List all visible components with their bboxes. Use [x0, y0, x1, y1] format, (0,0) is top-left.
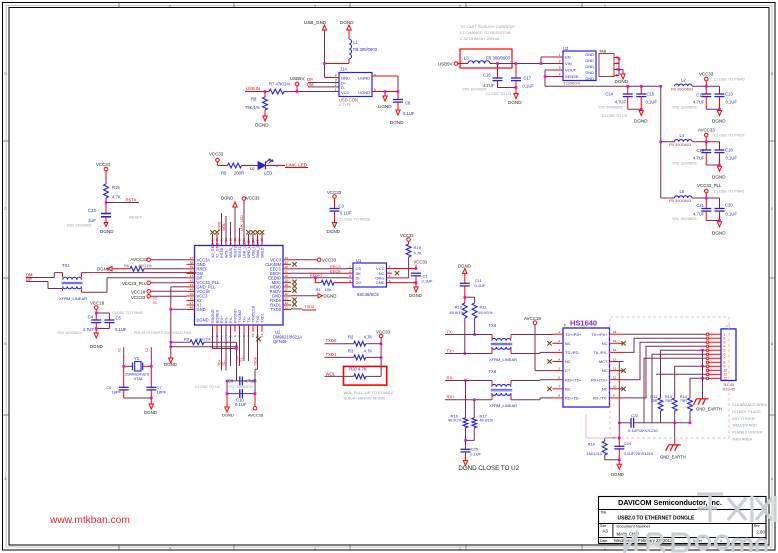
svg-text:XFRM_LINEAR: XFRM_LINEAR [489, 403, 517, 408]
svg-text:J1A: J1A [340, 67, 347, 72]
svg-text:0.1UF: 0.1UF [235, 402, 247, 407]
svg-text:WOL PULL-UP TO ENABLE: WOL PULL-UP TO ENABLE [344, 390, 395, 395]
svg-text:FX-: FX- [229, 316, 233, 323]
svg-text:RX-: RX- [225, 316, 229, 323]
svg-text:DGND: DGND [615, 79, 629, 84]
svg-text:L1: L1 [353, 40, 358, 45]
svg-text:TD-/PD-: TD-/PD- [565, 350, 580, 355]
svg-text:L2: L2 [681, 78, 686, 83]
svg-text:TAB: TAB [599, 49, 607, 53]
svg-text:SENSE: SENSE [565, 74, 579, 79]
svg-text:GND: GND [585, 58, 594, 63]
svg-text:4: 4 [169, 546, 171, 550]
svg-text:1M/1210: 1M/1210 [586, 451, 602, 456]
svg-text:QFN49: QFN49 [273, 339, 287, 344]
svg-text:TD+/PD+: TD+/PD+ [565, 332, 582, 337]
svg-text:Title: Title [601, 511, 607, 515]
svg-text:93C46/SC8: 93C46/SC8 [357, 292, 379, 297]
svg-text:DGND: DGND [197, 318, 209, 323]
svg-text:13: 13 [285, 306, 289, 310]
svg-text:4: 4 [335, 74, 337, 78]
svg-text:BGRES: BGRES [216, 309, 220, 323]
svg-text:VCC33: VCC33 [131, 295, 146, 300]
svg-text:45: 45 [190, 292, 194, 296]
svg-text:RSTB: RSTB [220, 247, 224, 258]
svg-text:TX-: TX- [247, 316, 251, 323]
svg-text:CLOSE TO U3: CLOSE TO U3 [602, 114, 627, 118]
svg-text:RSTB: RSTB [218, 221, 222, 231]
svg-text:TX+: TX+ [447, 348, 455, 353]
svg-text:FB 300/0603: FB 300/0603 [671, 86, 693, 91]
svg-text:VCC33: VCC33 [209, 152, 224, 157]
svg-text:XFRM_LINEAR: XFRM_LINEAR [489, 357, 517, 362]
svg-text:TD+: TD+ [218, 359, 222, 366]
svg-text:75R: 75R [665, 398, 672, 403]
svg-text:48: 48 [190, 306, 194, 310]
svg-text:39: 39 [190, 265, 194, 269]
svg-text:42: 42 [190, 279, 194, 283]
svg-text:A3: A3 [603, 529, 609, 534]
svg-text:46: 46 [190, 297, 194, 301]
svg-text:TX-: TX- [240, 357, 244, 362]
svg-text:RX+: RX+ [220, 315, 224, 323]
svg-text:2.32 OHM/IA+-200mA: 2.32 OHM/IA+-200mA [460, 36, 500, 41]
svg-text:RX+: RX+ [447, 394, 456, 399]
svg-text:NC: NC [565, 386, 571, 391]
svg-text:18PF: 18PF [111, 390, 121, 395]
svg-text:Y5V 16V/0603: Y5V 16V/0603 [672, 106, 697, 110]
svg-text:RX+/TX+: RX+/TX+ [591, 377, 608, 382]
svg-text:U3: U3 [563, 46, 569, 51]
svg-text:R5: R5 [221, 171, 227, 176]
svg-text:NC: NC [602, 341, 608, 346]
svg-text:TEST2: TEST2 [234, 246, 238, 258]
svg-text:RSGND: RSGND [211, 309, 215, 323]
svg-text:DGND: DGND [611, 472, 624, 477]
svg-text:200R: 200R [234, 171, 244, 176]
svg-text:49.9/1%: 49.9/1% [478, 310, 493, 315]
svg-text:0.1UF/2KV/1210: 0.1UF/2KV/1210 [628, 428, 658, 433]
svg-text:USB_GND: USB_GND [304, 20, 327, 25]
svg-text:VCC33_PLL: VCC33_PLL [697, 183, 722, 188]
svg-text:44: 44 [190, 288, 194, 292]
svg-text:0.1UF: 0.1UF [470, 451, 481, 456]
svg-text:0.1UF: 0.1UF [340, 211, 352, 216]
svg-text:DGND: DGND [409, 293, 422, 298]
svg-text:6.8K/1%: 6.8K/1% [196, 336, 211, 341]
svg-text:GND: GND [197, 307, 206, 312]
svg-text:Wednesday, February 22, 2012: Wednesday, February 22, 2012 [614, 538, 673, 543]
svg-text:75R: 75R [680, 398, 687, 403]
svg-text:JP1: JP1 [725, 325, 731, 329]
svg-text:TXVDD18: TXVDD18 [252, 306, 256, 323]
svg-text:NC: NC [565, 341, 571, 346]
svg-text:DGND: DGND [90, 344, 103, 349]
svg-text:TX-/PX-: TX-/PX- [593, 350, 608, 355]
svg-text:DGND: DGND [712, 119, 726, 124]
svg-text:FB 300/0603: FB 300/0603 [353, 47, 378, 52]
svg-text:14: 14 [285, 301, 289, 305]
svg-text:DGND CLOSE TO U2: DGND CLOSE TO U2 [458, 465, 519, 472]
svg-text:THIS AREA: THIS AREA [732, 437, 753, 442]
svg-text:NC: NC [602, 368, 608, 373]
svg-text:TX-: TX- [447, 329, 454, 334]
svg-text:VCC18: VCC18 [131, 289, 146, 294]
svg-text:4.7K: 4.7K [364, 348, 373, 353]
svg-text:C23: C23 [88, 208, 96, 213]
svg-text:38: 38 [190, 261, 194, 265]
svg-text:15: 15 [285, 297, 289, 301]
svg-text:USB IN: USB IN [246, 86, 260, 91]
svg-text:DO NOT PLACE: DO NOT PLACE [732, 409, 761, 414]
svg-text:C15: C15 [647, 92, 655, 97]
svg-text:USB5V: USB5V [290, 76, 304, 81]
svg-text:TX8: TX8 [489, 369, 497, 374]
svg-text:Y1: Y1 [134, 356, 140, 361]
svg-text:R1: R1 [316, 287, 322, 292]
svg-text:TXD1: TXD1 [326, 352, 337, 357]
svg-text:Y5V 16V/0603: Y5V 16V/0603 [672, 217, 697, 221]
svg-text:TX+/PX+: TX+/PX+ [591, 332, 608, 337]
svg-text:GND: GND [585, 52, 594, 57]
svg-text:AVCC18: AVCC18 [248, 413, 264, 418]
svg-text:Size: Size [600, 524, 606, 528]
svg-text:C13: C13 [725, 92, 733, 97]
svg-text:EECK: EECK [330, 268, 341, 273]
svg-text:SUB-IF NATIVE MODE: SUB-IF NATIVE MODE [344, 396, 386, 401]
svg-text:TXD0: TXD0 [271, 307, 282, 312]
svg-text:PLANES UNDER: PLANES UNDER [732, 430, 762, 435]
svg-text:TI: TI [564, 324, 567, 328]
svg-text:TXD1: TXD1 [261, 313, 265, 323]
svg-text:CLOSE TO PIN37: CLOSE TO PIN37 [714, 133, 745, 137]
svg-text:DGND: DGND [390, 120, 404, 125]
svg-text:U1: U1 [356, 258, 362, 263]
svg-text:CLOSE TO PIN43: CLOSE TO PIN43 [714, 78, 745, 82]
svg-text:RX-: RX- [447, 375, 455, 380]
svg-text:LED: LED [264, 171, 272, 176]
svg-text:NC: NC [602, 386, 608, 391]
svg-text:X2: X2 [145, 348, 149, 352]
svg-text:VIN: VIN [565, 61, 572, 66]
svg-text:GND: GND [585, 64, 594, 69]
svg-text:WOL: WOL [222, 223, 226, 231]
svg-text:TX1: TX1 [62, 263, 70, 268]
svg-text:Rev: Rev [754, 524, 760, 528]
svg-text:18PF: 18PF [157, 390, 167, 395]
svg-text:TX0: TX0 [489, 323, 497, 328]
svg-text:GND: GND [585, 76, 594, 81]
svg-text:TX+: TX+ [236, 356, 240, 362]
svg-text:XTAL: XTAL [134, 376, 144, 381]
svg-text:SMLD: SMLD [261, 247, 265, 258]
svg-text:12: 12 [724, 377, 728, 381]
svg-text:VCC33: VCC33 [246, 196, 260, 201]
svg-text:RST#: RST# [126, 197, 137, 202]
svg-text:UGND: UGND [358, 90, 370, 95]
svg-text:12: 12 [613, 366, 617, 370]
svg-text:R20 4.7K: R20 4.7K [349, 367, 367, 372]
svg-text:20: 20 [285, 274, 289, 278]
svg-text:Date:: Date: [600, 539, 608, 543]
svg-text:CLOSE TO PIN28: CLOSE TO PIN28 [340, 218, 371, 222]
svg-text:AVCC33: AVCC33 [131, 257, 148, 262]
svg-text:Document Number: Document Number [617, 524, 651, 529]
svg-text:4.7UF: 4.7UF [693, 156, 705, 161]
svg-text:17: 17 [285, 288, 289, 292]
svg-text:12: 12 [260, 333, 264, 337]
svg-text:4: 4 [169, 4, 171, 8]
svg-text:23: 23 [285, 261, 289, 265]
svg-text:0.1UF: 0.1UF [475, 283, 486, 288]
svg-text:L3: L3 [464, 55, 469, 60]
svg-text:Y5V 16V/0603: Y5V 16V/0603 [672, 162, 697, 166]
svg-text:0.1UF: 0.1UF [726, 100, 738, 105]
svg-text:VCC33: VCC33 [376, 329, 391, 334]
svg-text:DGND: DGND [324, 294, 337, 299]
svg-text:R8: R8 [251, 97, 257, 102]
svg-text:R2: R2 [348, 335, 354, 340]
svg-text:T23960/4: T23960/4 [563, 81, 581, 86]
svg-text:C21: C21 [696, 203, 704, 208]
svg-text:C14: C14 [605, 92, 613, 97]
svg-text:DGND: DGND [340, 20, 354, 25]
svg-text:R3: R3 [348, 348, 354, 353]
svg-text:49.9/1%: 49.9/1% [480, 419, 494, 423]
svg-text:TO LIMIT IN-RUSH CURRENT: TO LIMIT IN-RUSH CURRENT [460, 24, 516, 29]
svg-text:MCT: MCT [599, 359, 608, 364]
svg-text:TRACES AND: TRACES AND [732, 423, 757, 428]
svg-text:GND_EARTH: GND_EARTH [696, 406, 722, 411]
svg-text:D2: D2 [250, 167, 255, 171]
svg-text:R9: R9 [184, 336, 189, 341]
svg-text:Y5V 50V/0805: Y5V 50V/0805 [598, 106, 623, 110]
svg-text:0.1UF: 0.1UF [646, 100, 658, 105]
svg-text:USB2.0 TO ETHERNET DONGLE: USB2.0 TO ETHERNET DONGLE [618, 516, 696, 522]
svg-text:CLOSE TO U3: CLOSE TO U3 [486, 92, 511, 96]
svg-text:GND_EARTH: GND_EARTH [660, 455, 686, 460]
svg-text:75R: 75R [650, 398, 657, 403]
svg-text:C5: C5 [116, 316, 122, 321]
svg-text:R6: R6 [124, 263, 129, 268]
svg-text:10: 10 [251, 333, 255, 337]
svg-text:AVCC18: AVCC18 [524, 316, 541, 321]
svg-text:LNK_LED: LNK_LED [240, 215, 244, 231]
svg-text:4.7K: 4.7K [364, 335, 373, 340]
svg-text:VCC18: VCC18 [90, 301, 105, 306]
svg-text:DM: DM [307, 82, 314, 87]
svg-text:16: 16 [613, 330, 617, 334]
svg-text:DGND: DGND [164, 362, 177, 367]
svg-text:DAVICOM Semiconductor, Inc.: DAVICOM Semiconductor, Inc. [618, 498, 722, 507]
svg-text:RX-/TX-: RX-/TX- [593, 396, 608, 401]
svg-text:E5V 16V/0805: E5V 16V/0805 [67, 224, 92, 228]
svg-text:VCC: VCC [341, 90, 350, 95]
svg-text:DGND: DGND [222, 413, 234, 418]
svg-text:RXGND: RXGND [234, 309, 238, 323]
svg-text:C4: C4 [88, 315, 94, 320]
svg-text:1: 1 [604, 4, 606, 8]
svg-text:HS1640: HS1640 [570, 319, 597, 328]
svg-text:DGND: DGND [221, 196, 233, 201]
svg-text:L3 CHANGE TO RESISTOR,: L3 CHANGE TO RESISTOR, [460, 30, 512, 35]
svg-text:CT: CT [565, 368, 571, 373]
svg-text:GND: GND [376, 280, 385, 285]
svg-text:TXD0: TXD0 [326, 338, 337, 343]
svg-text:10K: 10K [325, 287, 332, 292]
svg-text:RD+/TD+: RD+/TD+ [565, 377, 583, 382]
svg-text:R15: R15 [112, 185, 120, 190]
svg-text:TXD0: TXD0 [304, 304, 315, 309]
svg-text:2.00: 2.00 [757, 530, 766, 535]
svg-text:C18: C18 [725, 148, 733, 153]
svg-text:C16: C16 [483, 72, 491, 77]
svg-text:DGND: DGND [712, 175, 726, 180]
svg-text:XFRM_LINEAR: XFRM_LINEAR [59, 296, 87, 301]
svg-text:DGND: DGND [634, 119, 648, 124]
svg-text:DGND: DGND [255, 123, 269, 128]
svg-text:43: 43 [190, 283, 194, 287]
svg-text:4.7UF: 4.7UF [83, 327, 95, 332]
svg-text:0.1UF: 0.1UF [726, 156, 738, 161]
svg-text:0.1UF: 0.1UF [726, 211, 738, 216]
svg-text:Y5V 16V/0603: Y5V 16V/0603 [57, 331, 82, 335]
svg-text:DGND: DGND [100, 229, 114, 234]
svg-text:NC: NC [565, 359, 571, 364]
svg-text:18: 18 [285, 283, 289, 287]
svg-text:49.9/1%: 49.9/1% [448, 419, 462, 423]
svg-text:L4: L4 [680, 133, 685, 138]
svg-text:0.1UF/2KV/1210: 0.1UF/2KV/1210 [624, 451, 654, 456]
svg-text:RD-/TD-: RD-/TD- [565, 396, 581, 401]
svg-text:VCC33_PLL: VCC33_PLL [122, 281, 147, 286]
svg-text:C9: C9 [228, 378, 234, 383]
svg-text:2: 2 [459, 4, 461, 8]
svg-text:0.1UF: 0.1UF [403, 111, 415, 116]
svg-text:R19: R19 [414, 245, 422, 250]
svg-text:WOL: WOL [326, 371, 336, 376]
svg-text:PIN 49 IS CHIP'S EXPOSED PAD: PIN 49 IS CHIP'S EXPOSED PAD [134, 331, 192, 335]
svg-text:Y5V 16V/0805: Y5V 16V/0805 [462, 88, 487, 92]
svg-text:DGND: DGND [458, 263, 471, 268]
svg-text:AVCC33: AVCC33 [698, 128, 715, 133]
svg-text:VCC33: VCC33 [699, 72, 714, 77]
svg-text:LINK_LED: LINK_LED [286, 163, 307, 168]
svg-text:C8: C8 [405, 101, 411, 106]
svg-text:0.1UF: 0.1UF [523, 83, 535, 88]
svg-text:75K/1%: 75K/1% [245, 105, 260, 110]
svg-text:4.7K: 4.7K [414, 251, 423, 256]
svg-text:15: 15 [613, 339, 617, 343]
svg-text:49.9/1%: 49.9/1% [449, 310, 464, 315]
svg-text:CLOSE TO U2: CLOSE TO U2 [195, 385, 220, 389]
svg-text:TD-: TD- [222, 360, 226, 366]
svg-text:2: 2 [335, 83, 337, 87]
svg-text:0.1UF: 0.1UF [115, 327, 127, 332]
svg-text:GND: GND [585, 70, 594, 75]
svg-text:X1: X1 [153, 301, 157, 305]
svg-text:R11: R11 [480, 305, 488, 310]
svg-text:C17: C17 [524, 76, 532, 81]
svg-text:DGND: DGND [508, 100, 522, 105]
svg-text:22: 22 [285, 265, 289, 269]
svg-text:47K/1%: 47K/1% [138, 263, 152, 268]
svg-text:C12: C12 [696, 92, 704, 97]
svg-text:VCC33: VCC33 [96, 162, 111, 167]
svg-text:1: 1 [604, 546, 606, 550]
svg-text:EEDIO: EEDIO [310, 273, 322, 278]
svg-text:DGND: DGND [712, 230, 726, 235]
svg-text:0.1UF: 0.1UF [422, 278, 433, 283]
svg-text:37: 37 [190, 256, 194, 260]
svg-text:4.7UF: 4.7UF [615, 100, 627, 105]
svg-text:USB5V: USB5V [438, 61, 452, 66]
svg-text:24: 24 [285, 256, 289, 260]
svg-text:4.7UF: 4.7UF [693, 100, 705, 105]
svg-text:L5: L5 [680, 189, 685, 194]
svg-text:EN: EN [565, 55, 571, 60]
svg-text:19: 19 [285, 279, 289, 283]
svg-text:R7 47K/1%: R7 47K/1% [269, 81, 290, 86]
svg-text:TX+: TX+ [243, 315, 247, 323]
svg-text:4.7UF: 4.7UF [693, 212, 705, 217]
svg-text:DGND: DGND [327, 229, 341, 234]
svg-text:C20: C20 [725, 203, 733, 208]
svg-text:www.mtkban.com: www.mtkban.com [49, 515, 130, 526]
svg-text:13: 13 [613, 357, 617, 361]
svg-text:Y5V 16V/0603: Y5V 16V/0603 [228, 385, 253, 389]
svg-text:VCC33: VCC33 [400, 233, 414, 238]
svg-text:UGND: UGND [378, 104, 392, 109]
svg-text:DGND: DGND [144, 410, 157, 415]
svg-text:ANY OTHER: ANY OTHER [732, 416, 755, 421]
svg-text:CLEARANCE AREA: CLEARANCE AREA [732, 402, 768, 407]
svg-text:3: 3 [335, 79, 337, 83]
svg-text:3: 3 [314, 546, 316, 550]
svg-text:C19: C19 [696, 148, 704, 153]
svg-text:FB 300/0603: FB 300/0603 [669, 198, 691, 203]
svg-text:VOUT: VOUT [565, 68, 577, 73]
svg-text:4.7K: 4.7K [112, 195, 121, 200]
svg-text:X1: X1 [118, 348, 122, 352]
svg-text:2: 2 [459, 546, 461, 550]
svg-text:1: 1 [720, 539, 722, 543]
svg-text:21: 21 [285, 270, 289, 274]
svg-text:16: 16 [285, 292, 289, 296]
svg-text:14: 14 [613, 348, 617, 352]
svg-text:41: 41 [190, 274, 194, 278]
svg-text:A TYPE: A TYPE [339, 103, 352, 107]
svg-text:R10: R10 [455, 305, 463, 310]
svg-text:10: 10 [613, 385, 617, 389]
svg-text:UGND: UGND [358, 76, 370, 81]
svg-text:VCC33: VCC33 [322, 257, 337, 262]
svg-text:TXGND: TXGND [238, 309, 242, 323]
svg-text:FB 300/0603: FB 300/0603 [486, 55, 511, 60]
svg-text:3: 3 [314, 4, 316, 8]
svg-text:TEST1: TEST1 [238, 246, 242, 258]
svg-text:C22: C22 [631, 413, 639, 418]
svg-text:1UF: 1UF [88, 218, 96, 223]
svg-text:VCC33: VCC33 [414, 259, 428, 264]
svg-text:WOL: WOL [225, 249, 229, 258]
svg-text:FB 300/0603: FB 300/0603 [669, 142, 691, 147]
svg-text:DO: DO [356, 280, 362, 285]
svg-text:11: 11 [613, 376, 616, 380]
svg-text:R18: R18 [588, 441, 596, 446]
svg-text:C24: C24 [624, 441, 632, 446]
svg-text:CLOSE TO PIN41: CLOSE TO PIN41 [714, 189, 745, 193]
